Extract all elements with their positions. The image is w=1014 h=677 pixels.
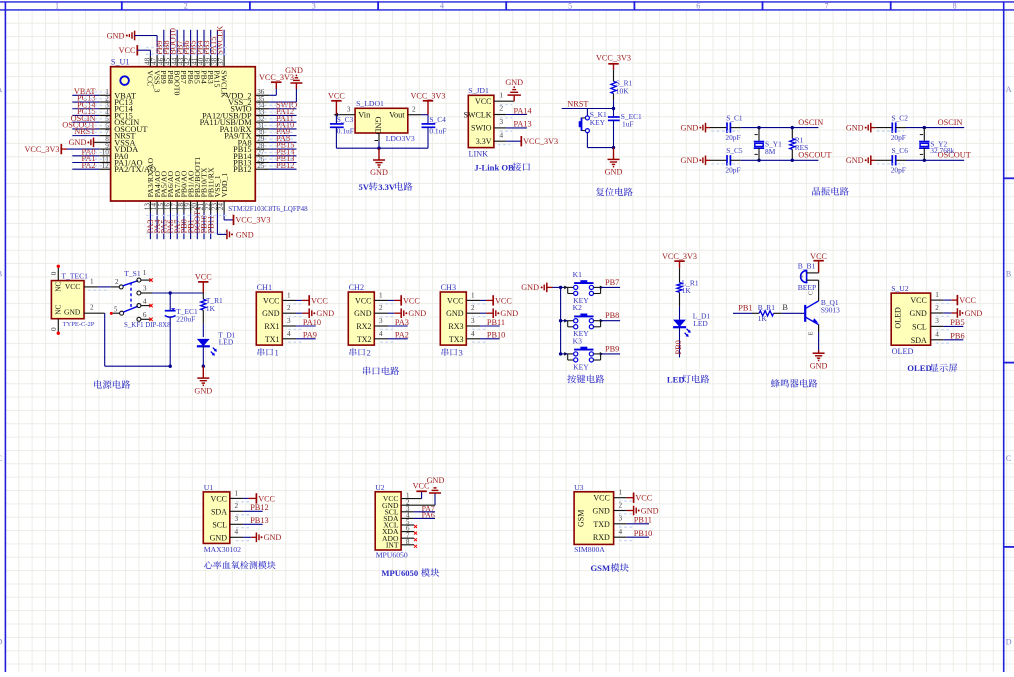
net label BOOT1 xyxy=(193,207,202,234)
svg-text:PA10: PA10 xyxy=(303,318,321,327)
net label PA7 xyxy=(422,504,435,513)
ruler row letters left (clipped) xyxy=(0,85,3,647)
svg-text:VCC: VCC xyxy=(403,296,420,305)
net label PC15 xyxy=(77,107,95,116)
svg-text:5: 5 xyxy=(568,1,572,10)
pin3 wire net PB13 xyxy=(230,515,263,528)
svg-text:SCL: SCL xyxy=(212,520,227,529)
svg-text:2: 2 xyxy=(235,502,239,510)
wire/net PA2/TX/AO pin12 xyxy=(72,168,110,170)
pin 2 wire Vout xyxy=(408,106,428,115)
svg-text:SDA: SDA xyxy=(911,336,927,345)
svg-text:PB1: PB1 xyxy=(738,304,752,313)
svg-text:4: 4 xyxy=(440,1,444,10)
svg-text:VCC: VCC xyxy=(328,92,345,101)
svg-text:0: 0 xyxy=(50,327,58,331)
earth ground LDO xyxy=(370,148,388,177)
mcu right pin numbers 36-25 xyxy=(257,88,265,170)
svg-text:S_C1: S_C1 xyxy=(726,113,743,122)
wire/net VBAT pin1 xyxy=(72,94,110,96)
power port VCC_3V3 LED xyxy=(662,252,697,268)
pin4 wire net PA2 xyxy=(374,330,407,342)
svg-text:GND: GND xyxy=(354,309,372,318)
svg-text:3: 3 xyxy=(235,515,239,523)
ground GND top xyxy=(107,31,135,41)
svg-text:U2: U2 xyxy=(375,483,385,492)
pin3 wire net PA7 xyxy=(401,511,435,513)
capacitor EC1 1uF xyxy=(608,109,642,150)
connector CH3 body xyxy=(440,283,466,345)
svg-text:GND: GND xyxy=(370,168,388,177)
svg-text:VCC: VCC xyxy=(119,46,136,55)
ground GND bottom xyxy=(227,230,254,240)
net label PC13 xyxy=(77,94,95,103)
svg-text:2: 2 xyxy=(619,501,623,509)
wire/net PB10 pin21 xyxy=(203,201,205,239)
wire/net PB4 pin40 xyxy=(203,30,205,67)
mpu pin numbers 1-8 xyxy=(406,492,410,546)
svg-text:3: 3 xyxy=(287,317,291,325)
net label PA5 xyxy=(160,220,169,234)
pin1 wire to VCC xyxy=(374,291,401,303)
resistor R1 10K xyxy=(611,70,633,101)
resistor T_R1 1K xyxy=(201,293,223,324)
svg-text:2: 2 xyxy=(935,304,939,312)
svg-text:1: 1 xyxy=(935,291,939,299)
net label PC14 xyxy=(77,100,96,109)
svg-text:OLED: OLED xyxy=(894,307,903,329)
net label PB6 xyxy=(950,332,964,341)
net label PA9 xyxy=(276,127,290,136)
pin7 no-connect xyxy=(401,538,417,541)
svg-text:PB10: PB10 xyxy=(634,529,652,538)
net label PB11 xyxy=(487,318,505,327)
title serial circuit xyxy=(363,366,399,375)
svg-text:1K: 1K xyxy=(758,314,768,323)
selection dashes left xyxy=(84,92,107,166)
net label PA12 xyxy=(276,107,294,116)
svg-text:U3: U3 xyxy=(574,483,584,492)
svg-text:20pF: 20pF xyxy=(891,166,906,175)
net label PB1 xyxy=(738,304,752,313)
wire/net PC14 pin3 xyxy=(72,108,110,110)
title crystal xyxy=(812,187,848,196)
selection dashes bottom xyxy=(146,216,228,234)
svg-text:32.768k: 32.768k xyxy=(930,146,954,155)
switch K1 KEY (reset button) xyxy=(579,110,607,133)
svg-text:GND: GND xyxy=(521,283,539,292)
connector JD1 J-Link body xyxy=(464,86,494,158)
power port VCC CH1 xyxy=(309,295,328,305)
ground GND at VSSA xyxy=(69,138,94,148)
svg-text:A: A xyxy=(0,85,3,94)
power port VCC top xyxy=(119,45,138,55)
comment S_KF1 DIP-8X8 xyxy=(124,322,171,329)
net label NRST xyxy=(74,127,95,136)
wire/net PB13 pin26 xyxy=(255,162,296,164)
led L_D1 xyxy=(673,307,710,337)
title buzzer xyxy=(771,379,817,388)
net label PB6 xyxy=(182,41,191,55)
svg-text:GND: GND xyxy=(681,156,699,165)
wire/net PA4 pin14 xyxy=(156,201,158,239)
svg-text:0.1uF: 0.1uF xyxy=(429,126,446,135)
ground GND crystal row xyxy=(681,156,710,166)
svg-text:NRST: NRST xyxy=(567,99,588,108)
svg-text:T_S1: T_S1 xyxy=(124,269,141,278)
svg-text:PA2: PA2 xyxy=(82,161,96,170)
net label PA4 xyxy=(153,219,162,234)
pin1 wire to VCC xyxy=(466,291,493,303)
svg-text:2: 2 xyxy=(287,304,291,312)
svg-text:GND: GND xyxy=(194,386,212,395)
net label PB12 xyxy=(250,503,268,512)
pin4 wire net PA9 xyxy=(282,330,315,342)
svg-text:GND: GND xyxy=(446,309,464,318)
switch S1 DIP pole A xyxy=(115,269,153,289)
svg-text:NC: NC xyxy=(53,305,62,315)
pushbutton K2 KEY xyxy=(564,303,603,338)
pin4 wire net PB6 xyxy=(931,331,964,344)
svg-text:MPU6050: MPU6050 xyxy=(376,550,408,559)
wire/net SWCLK pin37 xyxy=(223,30,225,67)
wire VCC pin1 to switch xyxy=(84,277,119,290)
earth ground MPU xyxy=(427,476,445,493)
wire/net PA12 pin33 xyxy=(255,114,296,116)
svg-text:GND: GND xyxy=(264,533,282,542)
resistor B_R1 1K xyxy=(752,303,782,323)
svg-text:PB12: PB12 xyxy=(233,165,251,174)
net label OSCOUT xyxy=(62,121,95,130)
svg-text:VCC: VCC xyxy=(593,494,609,503)
mcu top pin names (rotated) xyxy=(146,70,229,98)
wire/net PC13 pin2 xyxy=(72,101,110,103)
wire OSCOUT row xyxy=(741,159,819,162)
svg-text:RX1: RX1 xyxy=(264,322,279,331)
net label PB7 xyxy=(175,41,184,55)
wire VDD_1 to VCC_3V3 xyxy=(224,201,233,220)
svg-text:GND: GND xyxy=(500,309,518,318)
power port VCC OLED xyxy=(957,295,976,305)
svg-text:Vin: Vin xyxy=(358,111,371,120)
wire GND pin2 down xyxy=(84,304,170,367)
connector TEC1 TYPE-C body xyxy=(51,272,94,328)
earth ground power xyxy=(194,366,212,395)
selection dashes right xyxy=(259,105,293,165)
svg-text:GND: GND xyxy=(236,230,254,239)
svg-text:4: 4 xyxy=(287,330,291,338)
svg-text:3: 3 xyxy=(379,317,383,325)
LDO ground pin wire xyxy=(375,133,380,148)
svg-text:SWCLK: SWCLK xyxy=(219,70,228,98)
svg-text:GND: GND xyxy=(965,309,983,318)
mcu left pin numbers 1-12 xyxy=(102,88,110,170)
svg-text:1: 1 xyxy=(235,489,239,497)
title OLED display xyxy=(907,363,957,373)
title GSM module xyxy=(591,563,629,573)
ground GND GSM xyxy=(634,506,659,516)
ground GND CH1 xyxy=(309,308,334,318)
net label PA13 xyxy=(514,120,532,129)
pin4 wire to VCC_3V3 xyxy=(494,131,521,144)
net label PB13 xyxy=(250,516,268,525)
pin4 wire net PB10 xyxy=(466,330,499,342)
svg-text:3: 3 xyxy=(312,1,316,10)
ruler row letters right xyxy=(1006,85,1012,647)
capacitor S_C1 20pF xyxy=(710,113,743,142)
svg-text:SIM800A: SIM800A xyxy=(574,545,605,554)
net label PB0 xyxy=(180,219,189,233)
mcu bottom pin names (rotated) xyxy=(146,157,229,198)
mcu top pin numbers 48-37 xyxy=(144,57,226,65)
svg-text:VCC: VCC xyxy=(635,494,652,503)
svg-text:GND: GND xyxy=(374,117,383,135)
svg-text:1uF: 1uF xyxy=(622,119,634,128)
svg-text:B_R1: B_R1 xyxy=(758,303,776,312)
svg-text:1K: 1K xyxy=(682,286,692,295)
svg-text:D: D xyxy=(1006,638,1012,647)
pin2 wire net PB12 xyxy=(230,502,263,515)
pin3 wire net PA13 xyxy=(494,118,527,131)
svg-text:S_C4: S_C4 xyxy=(429,115,446,124)
wire switch out rail xyxy=(152,291,203,294)
wire to base net B xyxy=(782,312,804,314)
svg-text:GND: GND xyxy=(505,78,523,87)
net label PB12 xyxy=(276,161,294,170)
svg-text:2: 2 xyxy=(90,304,94,312)
wire/net PA10 pin31 xyxy=(255,128,296,130)
svg-text:VCC_3V3: VCC_3V3 xyxy=(523,137,558,146)
svg-text:LED: LED xyxy=(693,319,708,328)
label 串口2 xyxy=(350,347,371,357)
svg-text:LED: LED xyxy=(219,338,234,347)
title MPU6050 module xyxy=(381,568,439,578)
net label PA6 xyxy=(166,220,175,234)
mcu U1 STM32F103C8T6 body xyxy=(111,58,309,213)
title reset xyxy=(596,188,633,197)
svg-text:S_U2: S_U2 xyxy=(891,284,909,293)
wire/net PB7 pin43 xyxy=(183,30,185,67)
switch S1 linkage dashed xyxy=(130,282,132,308)
svg-text:VCC: VCC xyxy=(263,296,279,305)
capacitor S_C5 20pF xyxy=(710,146,743,175)
pin8 no-connect xyxy=(401,545,417,548)
pin2 wire to GND xyxy=(614,501,634,514)
pin3 wire net PB11 xyxy=(614,515,649,528)
wire/net PA7 pin17 xyxy=(176,201,178,239)
svg-text:S9013: S9013 xyxy=(821,306,840,315)
power port VCC GSM xyxy=(634,493,653,503)
svg-text:3: 3 xyxy=(471,317,475,325)
svg-text:3.3V: 3.3V xyxy=(476,137,492,146)
svg-text:GND: GND xyxy=(909,309,927,318)
connector CH1 body xyxy=(256,283,282,345)
svg-text:GND: GND xyxy=(262,309,280,318)
svg-text:K3: K3 xyxy=(573,336,582,345)
selection dashes top xyxy=(146,48,228,55)
svg-text:3: 3 xyxy=(347,106,351,114)
svg-text:8: 8 xyxy=(953,1,957,10)
svg-text:GND: GND xyxy=(810,361,828,370)
svg-text:VCC: VCC xyxy=(211,494,227,503)
led T_D1 xyxy=(197,324,236,368)
net label PA14 xyxy=(514,106,533,115)
svg-text:PB10: PB10 xyxy=(487,331,505,340)
net label OSCOUT xyxy=(938,151,971,160)
svg-text:3: 3 xyxy=(619,515,623,523)
module U3 SIM800A body xyxy=(574,483,614,554)
resistor R1 RES parallel xyxy=(790,126,809,162)
svg-text:PB11: PB11 xyxy=(634,516,652,525)
svg-text:GND: GND xyxy=(69,138,87,147)
svg-text:VCC: VCC xyxy=(195,273,212,282)
wire/net PB8 pin45 xyxy=(170,30,172,67)
net label PB9 xyxy=(155,41,164,55)
net label PA2 xyxy=(395,331,409,340)
svg-text:VCC: VCC xyxy=(810,252,827,261)
svg-text:1: 1 xyxy=(619,489,623,497)
svg-text:4: 4 xyxy=(500,131,504,139)
wire key K3 out net PB9 xyxy=(601,353,621,355)
TEC1 top stub pin 0 xyxy=(50,265,60,281)
power port VCC at LDO xyxy=(328,92,345,115)
svg-text:PB6: PB6 xyxy=(950,332,964,341)
power port VCC MPU xyxy=(413,482,430,492)
designator T_S1 xyxy=(124,269,141,278)
svg-text:C: C xyxy=(1006,454,1011,463)
net label SWIO xyxy=(276,100,297,109)
wire/net PA6 pin16 xyxy=(170,201,172,239)
wire VDDA xyxy=(67,148,111,150)
wire/net PB11 pin22 xyxy=(210,201,212,239)
wire buzzer to collector xyxy=(818,280,820,301)
svg-text:1: 1 xyxy=(275,347,279,357)
ground GND crystal row xyxy=(846,123,875,133)
wire/net OSCIN pin5 xyxy=(72,121,110,123)
net label PA0 xyxy=(82,147,96,156)
wire/net PA3 pin13 xyxy=(149,201,151,239)
svg-text:CH3: CH3 xyxy=(441,283,456,292)
svg-text:K2: K2 xyxy=(573,303,582,312)
svg-text:3.3V: 3.3V xyxy=(378,182,396,192)
svg-text:VCC: VCC xyxy=(447,296,463,305)
svg-text:GND: GND xyxy=(641,506,659,515)
svg-text:OLED: OLED xyxy=(907,363,931,373)
wire trunk stub K3 xyxy=(559,352,568,355)
svg-text:TXD: TXD xyxy=(593,520,610,529)
power port VCC_3V3 reset xyxy=(596,53,631,69)
net label PB13 xyxy=(276,154,294,163)
power port VCC_3V3 J-Link xyxy=(521,136,558,146)
svg-text:SWCLK: SWCLK xyxy=(216,26,225,55)
switch S1 contact 3 xyxy=(137,284,152,295)
net label BOOT0 xyxy=(169,28,178,55)
svg-text:J-Link OB: J-Link OB xyxy=(474,162,514,172)
ground GND keys xyxy=(521,283,552,293)
wire/net PB9 pin46 xyxy=(163,30,165,67)
pin1 wire to VCC xyxy=(614,489,634,502)
pin2 wire to GND xyxy=(931,304,958,317)
capacitor EC1 220uF xyxy=(165,293,198,368)
pin1 wire to ground xyxy=(494,91,514,104)
net label PB7 xyxy=(605,278,619,287)
wire/net PB6 pin42 xyxy=(190,30,192,67)
svg-text:4: 4 xyxy=(619,528,623,536)
svg-text:3: 3 xyxy=(500,118,504,126)
svg-text:PB7: PB7 xyxy=(605,278,619,287)
wire/net PA5 pin15 xyxy=(163,201,165,239)
svg-text:TX1: TX1 xyxy=(265,335,280,344)
svg-text:CH1: CH1 xyxy=(257,283,272,292)
wire PB1 to resistor xyxy=(733,312,752,314)
svg-text:S_JD1: S_JD1 xyxy=(468,86,489,95)
sensor U1 MAX30102 body xyxy=(203,483,241,554)
capacitor C4 0.1uF xyxy=(422,115,447,149)
pin3 wire net PB5 xyxy=(931,317,964,330)
pin5 no-connect xyxy=(401,525,417,528)
title key circuit xyxy=(567,375,604,384)
svg-text:BEEP: BEEP xyxy=(798,283,817,292)
pin4 wire net PA6 xyxy=(401,517,435,519)
wire VSS_2 to ground xyxy=(255,83,296,102)
buzzer B_B1 BEEP xyxy=(798,261,819,292)
svg-text:D: D xyxy=(0,638,3,647)
wire/net PB15 pin28 xyxy=(255,148,296,150)
title J-Link OB xyxy=(474,162,530,172)
wire led to net PB0 xyxy=(679,328,681,358)
wire/net PB5 pin41 xyxy=(196,30,198,67)
net label PA8 xyxy=(276,134,290,143)
pin3 wire net PB11 xyxy=(466,317,499,329)
pin6 no-connect xyxy=(401,532,417,535)
net label PA7 xyxy=(173,220,182,234)
wire/net PB0 pin18 xyxy=(183,201,185,239)
svg-text:GSM: GSM xyxy=(591,563,611,573)
wire/net BOOT1 pin20 xyxy=(196,201,198,239)
power port VCC_3V3 at LDO out xyxy=(410,92,445,115)
pin2 wire to GND xyxy=(401,493,435,505)
svg-text:OSCIN: OSCIN xyxy=(798,118,823,127)
TEC1 bottom stub pin 0 xyxy=(50,319,60,335)
pin3 wire net PA3 xyxy=(374,317,407,329)
wire NRST xyxy=(562,107,616,110)
net label PA11 xyxy=(276,114,294,123)
svg-text:220uF: 220uF xyxy=(176,315,195,324)
svg-text:B: B xyxy=(1006,270,1011,279)
svg-text:CH2: CH2 xyxy=(349,283,364,292)
svg-text:20pF: 20pF xyxy=(725,166,740,175)
pin1 wire to VCC xyxy=(230,489,257,502)
svg-text:VCC: VCC xyxy=(910,296,926,305)
svg-text:2: 2 xyxy=(367,347,371,357)
pin 3 wire Vin xyxy=(333,106,355,117)
net label OSCIN xyxy=(798,118,823,127)
power port VCC power circuit xyxy=(195,273,212,294)
net label OSCOUT xyxy=(798,151,831,160)
wire/net PA1/AO pin11 xyxy=(72,162,110,164)
power port VCC_3V3 at VDDA xyxy=(24,144,67,154)
svg-text:KEY: KEY xyxy=(573,362,589,371)
wire OSCIN row xyxy=(741,126,819,129)
wire/net NRST pin7 xyxy=(72,135,110,137)
svg-text:PA14: PA14 xyxy=(514,106,533,115)
switch S1 pole B xyxy=(110,297,153,315)
net label PB10 xyxy=(634,529,652,538)
net label PB9 xyxy=(605,344,619,353)
earth ground reset xyxy=(605,148,623,177)
display U2 OLED body xyxy=(891,284,930,356)
wire/net PC15 pin4 xyxy=(72,114,110,116)
